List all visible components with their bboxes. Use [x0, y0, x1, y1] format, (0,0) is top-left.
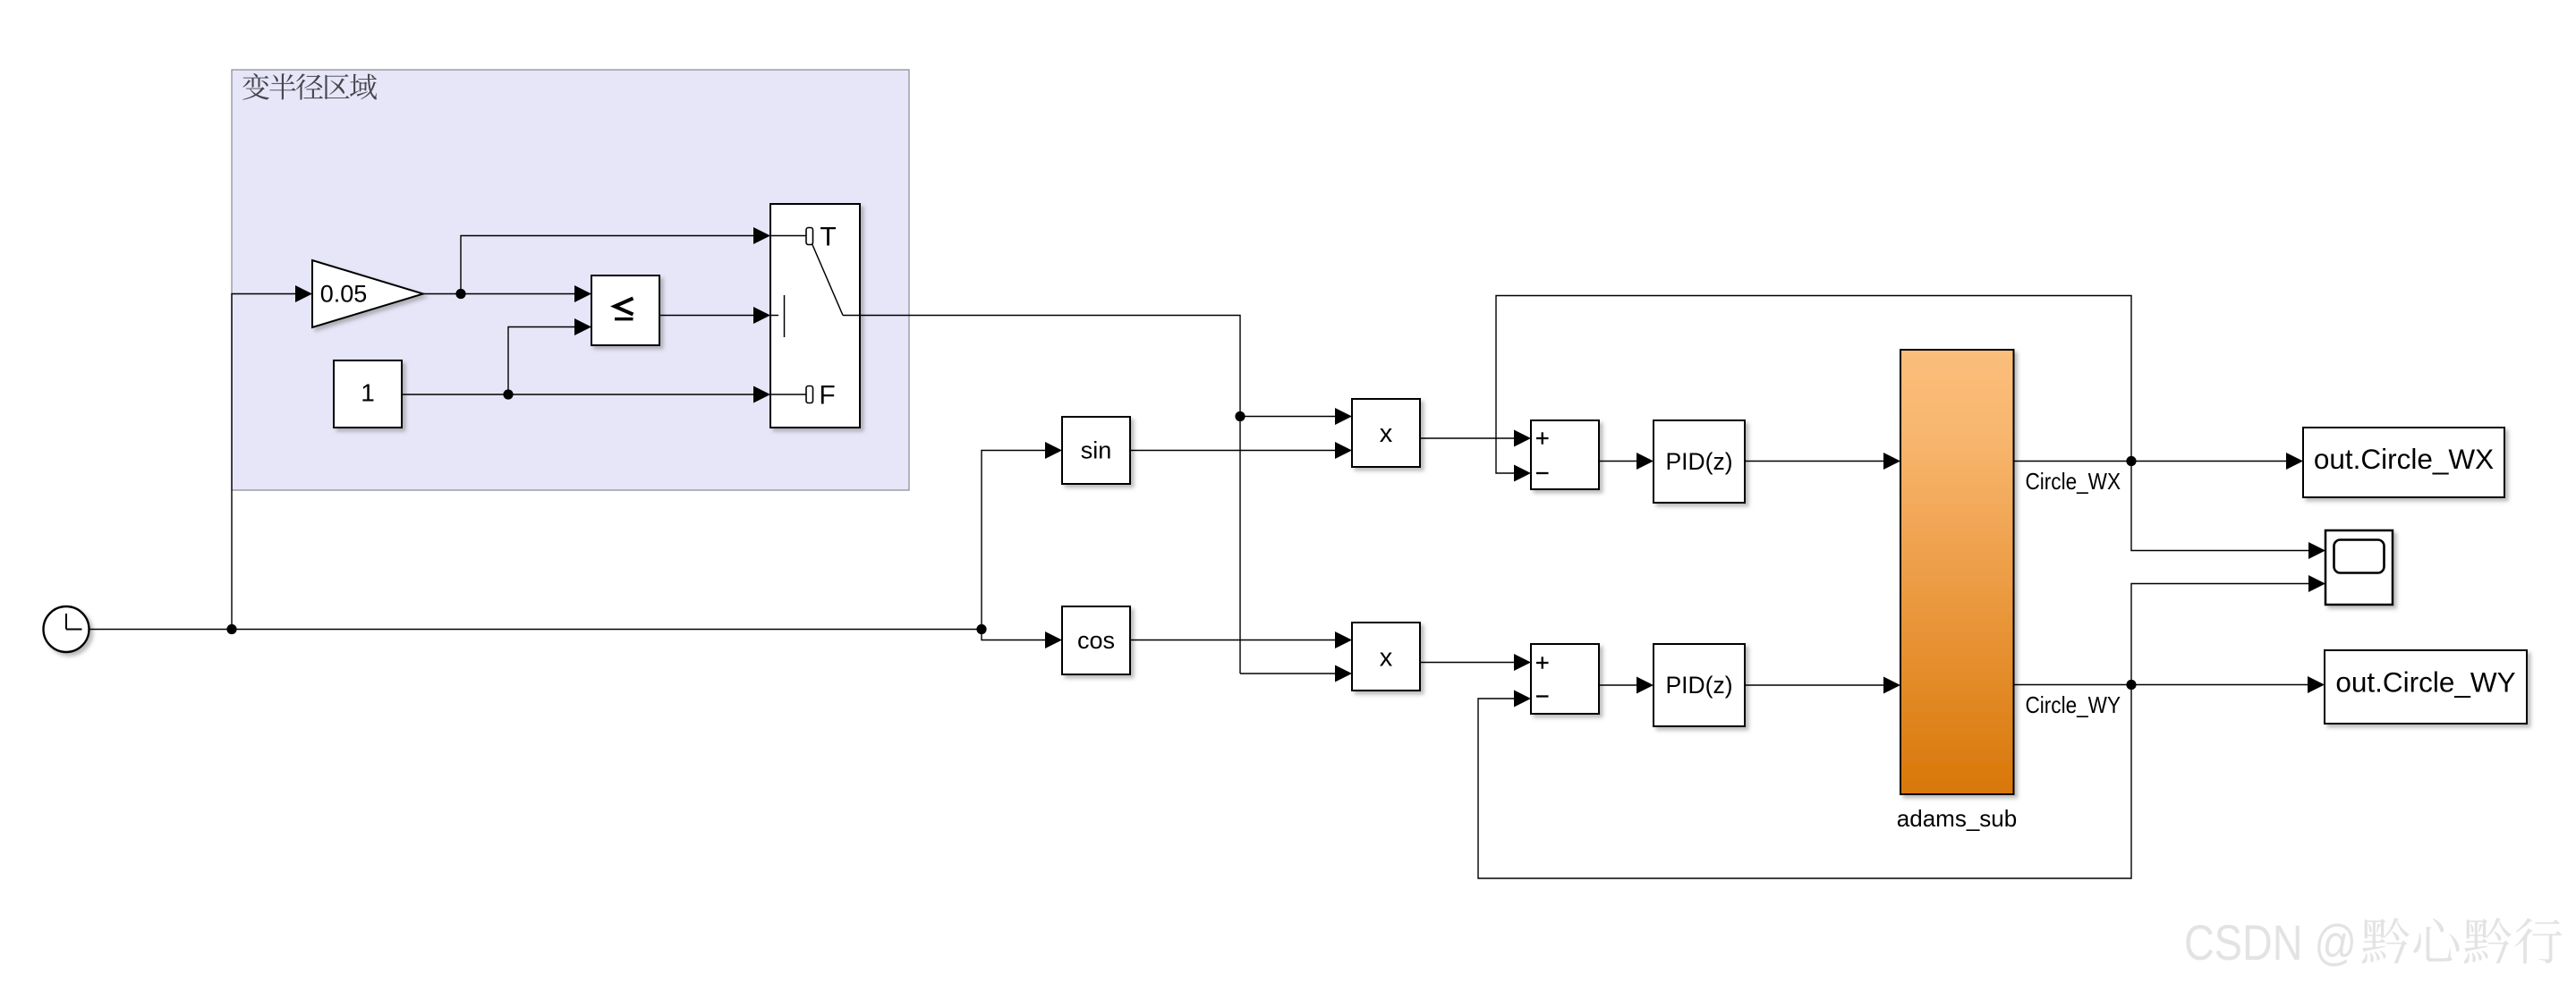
- product block X1: [1352, 399, 1420, 467]
- node junction on radius line: [1235, 411, 1245, 421]
- svg-text:out.Circle_WY: out.Circle_WY: [2335, 666, 2515, 699]
- relational operator U1 less-or-equal: [591, 275, 659, 345]
- node junction after constant: [503, 389, 513, 399]
- wire Circle_WY branch to scope input 2: [2131, 575, 2325, 685]
- wire sum S1 to PID1: [1599, 453, 1654, 470]
- PID controller PID1: [1654, 420, 1745, 503]
- wire up into region to gain input: [232, 285, 312, 630]
- constant C1 value 1: [334, 360, 402, 428]
- wire feedback loop 1 to sum S1 minus input: [1496, 296, 2131, 482]
- svg-text:Circle_WY: Circle_WY: [2026, 691, 2121, 718]
- node junction on Circle_WY line: [2126, 680, 2136, 690]
- node junction after gain: [455, 289, 465, 299]
- product block X2: [1352, 623, 1420, 691]
- gain K1 value 0.05: [312, 260, 423, 327]
- wire Circle_WX output to out block: [2014, 453, 2304, 470]
- wire gain junction to relational operator input 1: [461, 285, 591, 302]
- svg-text:F: F: [819, 381, 835, 411]
- wire sin output to product X1 input 2: [1130, 442, 1352, 459]
- svg-text:PID(z): PID(z): [1665, 448, 1732, 475]
- PID controller PID2: [1654, 644, 1745, 726]
- node junction before cos: [976, 624, 986, 634]
- outport block out.Circle_WX: [2303, 428, 2504, 497]
- wire switch output down the middle column: [860, 316, 1240, 674]
- svg-text:adams_sub: adams_sub: [1897, 805, 2017, 832]
- trigonometric function block sin: [1062, 417, 1130, 484]
- node junction at region input: [226, 624, 236, 634]
- subsystem adams_sub: [1897, 350, 2017, 832]
- svg-text:0.05: 0.05: [320, 281, 368, 308]
- trigonometric function block cos: [1062, 606, 1130, 674]
- subsystem area 变半径区域 (variable-radius region): [232, 70, 909, 490]
- wire gain junction to switch T input: [461, 227, 770, 294]
- wire junction up to sin input: [982, 442, 1062, 630]
- wire constant junction to relational operator input 2: [508, 318, 591, 394]
- wire feedback loop 2 to sum S2 minus input: [1478, 685, 2131, 879]
- clock source block: [44, 606, 89, 652]
- svg-text:Circle_WX: Circle_WX: [2026, 468, 2121, 495]
- sum block S2: [1531, 644, 1599, 714]
- watermark CSDN @黔心黔行: [2184, 914, 2562, 970]
- sum block S1: [1531, 420, 1599, 489]
- outport block out.Circle_WY: [2325, 650, 2527, 724]
- switch SW1: [770, 204, 860, 428]
- svg-text:sin: sin: [1081, 437, 1112, 464]
- area title 变半径区域: [242, 73, 377, 100]
- port label Circle_WX: [2026, 468, 2121, 495]
- wire sum S2 to PID2: [1599, 677, 1654, 694]
- wire radius to product X2 input 2: [1240, 665, 1352, 682]
- wire relational operator output to switch control input: [659, 307, 770, 324]
- wire PID1 to adams_sub input 1: [1745, 453, 1900, 470]
- svg-text:x: x: [1380, 644, 1393, 673]
- wire product X2 to sum S2 plus input: [1420, 654, 1531, 671]
- wire clock output to cos junction: [89, 629, 982, 631]
- wire cos output to product X2 input 1: [1130, 631, 1352, 648]
- node junction on Circle_WX line: [2126, 456, 2136, 466]
- wire PID2 to adams_sub input 2: [1745, 677, 1900, 694]
- port label Circle_WY: [2026, 691, 2121, 718]
- wire product X1 to sum S1 plus input: [1420, 430, 1531, 447]
- scope block: [2325, 530, 2393, 605]
- wire constant junction to switch F input: [508, 386, 770, 403]
- wire Circle_WX branch to scope input 1: [2131, 462, 2325, 560]
- svg-text:x: x: [1380, 419, 1393, 448]
- svg-text:1: 1: [361, 379, 375, 407]
- svg-text:cos: cos: [1077, 627, 1115, 654]
- svg-text:T: T: [820, 223, 836, 252]
- wire radius to product X1 input 1: [1240, 408, 1352, 425]
- wire junction to cos input: [982, 630, 1062, 649]
- svg-text:PID(z): PID(z): [1665, 672, 1732, 699]
- wire constant output to junction: [402, 394, 508, 395]
- wire Circle_WY output to out block: [2014, 676, 2325, 693]
- svg-text:out.Circle_WX: out.Circle_WX: [2314, 443, 2494, 475]
- wire gain output to junction: [423, 293, 461, 295]
- svg-text:CSDN @: CSDN @: [2184, 914, 2357, 970]
